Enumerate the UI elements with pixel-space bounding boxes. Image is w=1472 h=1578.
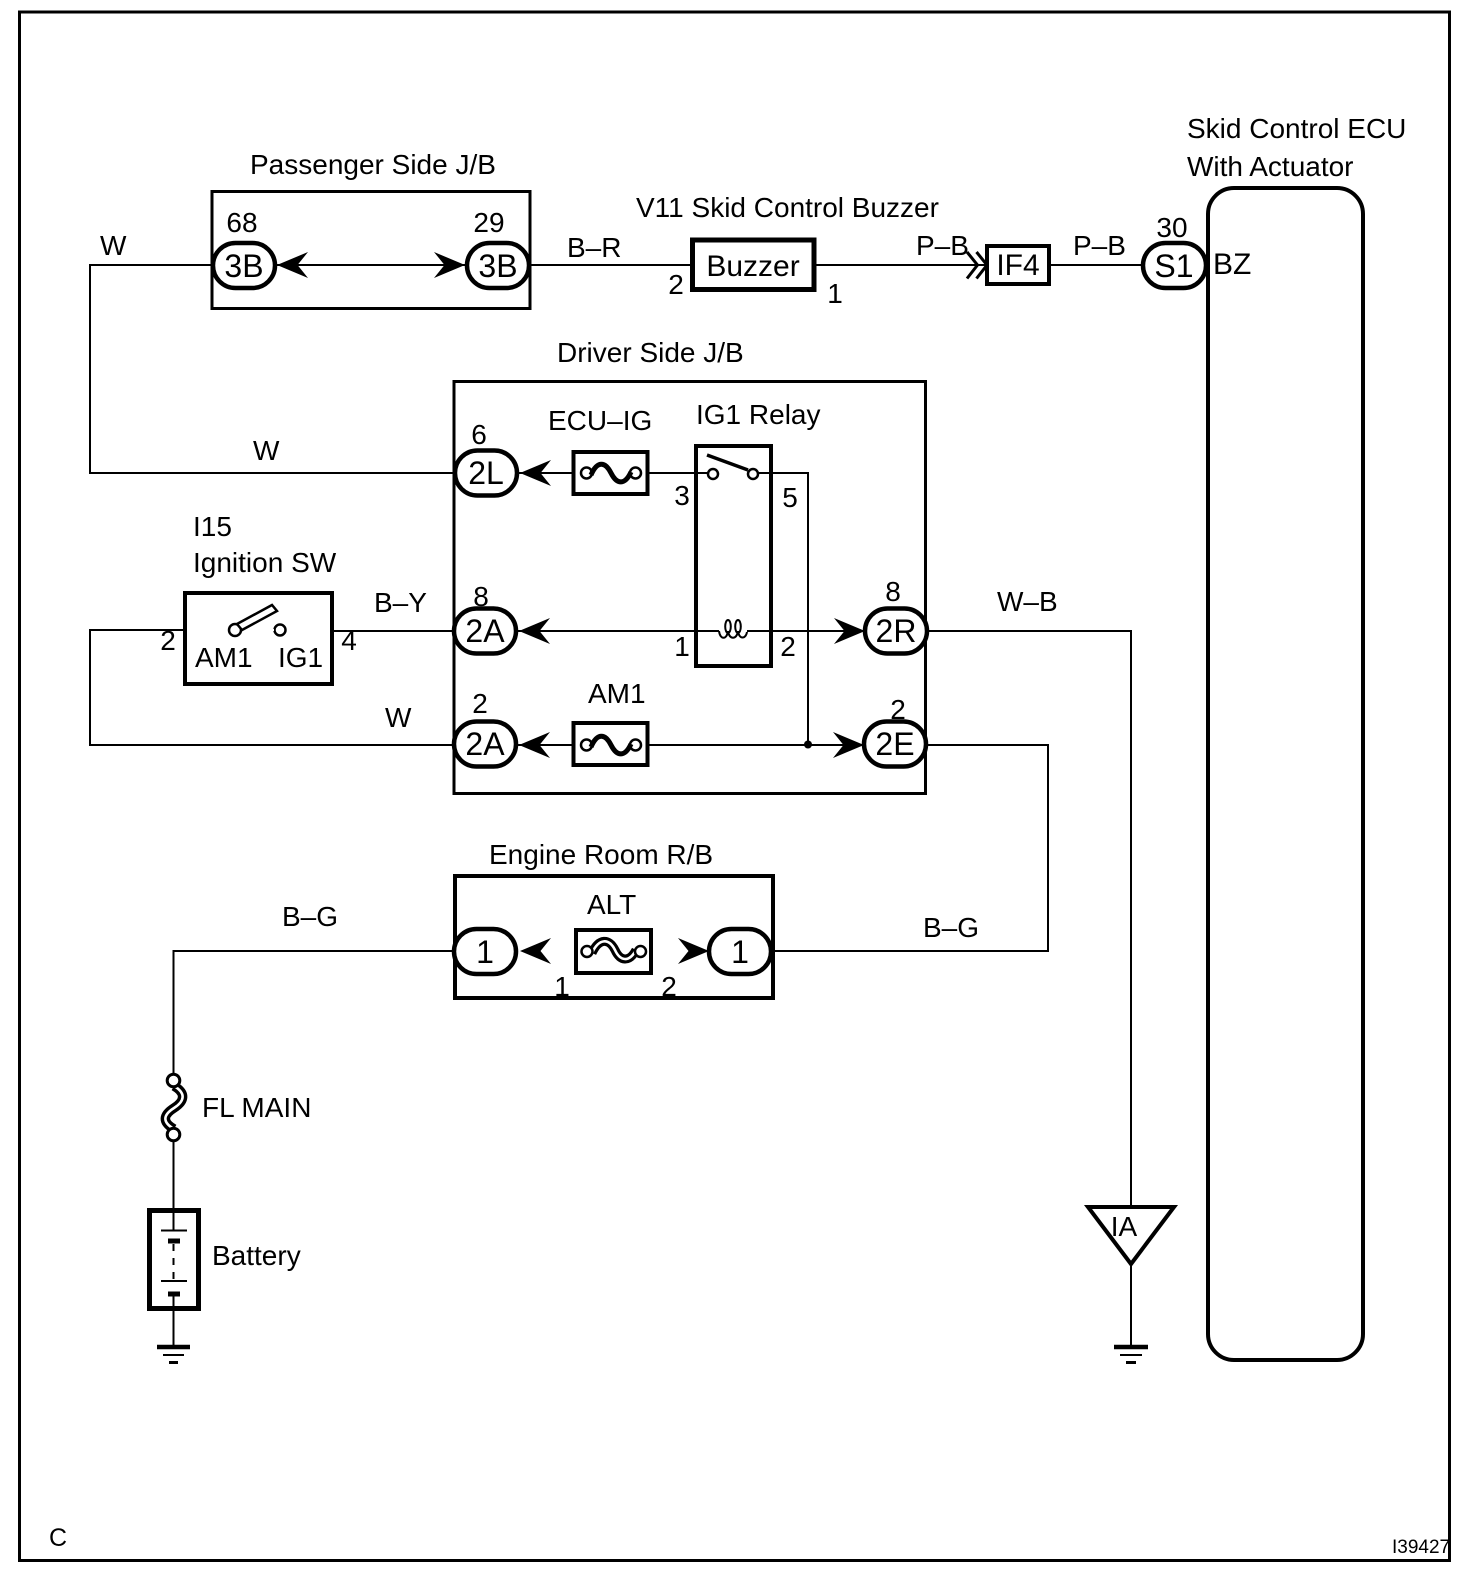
ground below IA: [1114, 1345, 1148, 1350]
ground IA triangle: [1088, 1207, 1174, 1264]
svg-text:B–R: B–R: [567, 232, 621, 263]
connector S1: [1143, 243, 1206, 288]
wire P-B IF4 to S1: [1050, 264, 1144, 266]
svg-text:2R: 2R: [876, 613, 917, 649]
svg-text:8: 8: [885, 576, 901, 607]
svg-text:30: 30: [1156, 212, 1187, 243]
svg-text:4: 4: [341, 625, 357, 656]
svg-text:Battery: Battery: [212, 1240, 301, 1271]
svg-text:Skid Control ECU: Skid Control ECU: [1187, 113, 1406, 144]
arrow into 1 right: [678, 938, 709, 964]
svg-text:IG1: IG1: [278, 642, 323, 673]
svg-text:W: W: [385, 702, 412, 733]
svg-text:FL MAIN: FL MAIN: [202, 1092, 311, 1123]
wire between 3B connectors: [275, 264, 467, 266]
relay switch lever: [707, 455, 748, 470]
svg-text:Driver Side J/B: Driver Side J/B: [557, 337, 744, 368]
svg-text:2: 2: [160, 625, 176, 656]
svg-text:IA: IA: [1111, 1211, 1138, 1242]
svg-text:ECU–IG: ECU–IG: [548, 405, 652, 436]
Engine Room R/B box: [455, 876, 773, 998]
svg-text:Engine Room R/B: Engine Room R/B: [489, 839, 713, 870]
svg-text:B–G: B–G: [923, 912, 979, 943]
svg-text:S1: S1: [1154, 248, 1193, 284]
arrow into 2A row3: [519, 732, 550, 758]
svg-text:Passenger Side J/B: Passenger Side J/B: [250, 149, 496, 180]
wire ECU-IG fuse to relay pin3: [649, 472, 695, 474]
arrow into 3B right: [434, 252, 465, 278]
svg-text:P–B: P–B: [1073, 230, 1126, 261]
wire relay pin2 to 2R: [772, 630, 866, 632]
svg-text:B–Y: B–Y: [374, 587, 427, 618]
svg-text:5: 5: [782, 482, 798, 513]
svg-text:2: 2: [780, 631, 796, 662]
connector 3B left: [213, 243, 275, 288]
svg-text:W–B: W–B: [997, 586, 1058, 617]
connector 3B right: [467, 243, 529, 288]
svg-text:C: C: [49, 1524, 67, 1552]
svg-text:1: 1: [554, 971, 570, 1002]
arrow into 2A row2: [519, 618, 550, 644]
svg-text:IF4: IF4: [996, 249, 1039, 282]
connector 1 left: [454, 929, 516, 974]
svg-text:W: W: [253, 435, 280, 466]
fusible link FL MAIN: [165, 1086, 182, 1129]
svg-text:I15: I15: [193, 511, 232, 542]
wire AM1 fuse to 2E: [649, 744, 865, 746]
svg-text:3B: 3B: [478, 248, 517, 284]
connector 2E: [864, 722, 926, 767]
connector IF4: [987, 246, 1049, 284]
wire W from passenger J/B to driver J/B 2L: [90, 265, 453, 473]
svg-text:3: 3: [674, 480, 690, 511]
wire P-B buzzer to IF4: [816, 264, 986, 266]
svg-text:AM1: AM1: [588, 678, 646, 709]
wire B-G engine room R/B to FL MAIN: [174, 951, 455, 1075]
Driver Side J/B box: [454, 382, 926, 794]
wire battery to ground: [173, 1310, 175, 1346]
arrow into 2R: [834, 618, 865, 644]
svg-text:29: 29: [473, 207, 504, 238]
buzzer box: [693, 240, 815, 290]
wire ignition SW pin2 to 2A row3: [90, 630, 454, 745]
svg-text:2A: 2A: [465, 613, 505, 649]
connector 2A row3: [454, 722, 516, 767]
svg-text:2: 2: [668, 269, 684, 300]
svg-text:68: 68: [226, 207, 257, 238]
svg-text:P–B: P–B: [916, 230, 969, 261]
svg-text:V11 Skid Control Buzzer: V11 Skid Control Buzzer: [636, 192, 939, 223]
wire 2A row3 to AM1 fuse: [516, 744, 572, 746]
Passenger Side J/B box: [212, 192, 530, 309]
wire B-R buzzer to 3B: [529, 264, 691, 266]
svg-text:B–G: B–G: [282, 901, 338, 932]
wire 2L to ECU-IG fuse: [517, 472, 572, 474]
arrow into 1 left: [520, 938, 551, 964]
ignition contacts: [229, 624, 241, 636]
svg-text:ALT: ALT: [587, 889, 636, 920]
connector 2L: [455, 451, 517, 496]
svg-text:IG1 Relay: IG1 Relay: [696, 399, 821, 430]
wire W-B 2R to IA triangle: [927, 631, 1131, 1208]
wire relay pin5 down to row3 junction: [772, 473, 808, 745]
svg-text:Buzzer: Buzzer: [706, 250, 799, 283]
arrow into 2E: [833, 732, 864, 758]
arrow into 3B left: [277, 252, 308, 278]
svg-text:BZ: BZ: [1213, 248, 1251, 281]
svg-text:1: 1: [731, 934, 749, 970]
svg-text:1: 1: [476, 934, 494, 970]
battery: [150, 1211, 199, 1309]
relay coil: [695, 630, 719, 632]
connector 1 right: [709, 929, 771, 974]
svg-text:1: 1: [674, 631, 690, 662]
connector 2A row2: [454, 609, 516, 654]
svg-text:W: W: [100, 230, 127, 261]
connector 2R: [865, 609, 927, 654]
svg-text:2: 2: [661, 971, 677, 1002]
svg-text:3B: 3B: [224, 248, 263, 284]
wire FL MAIN to battery: [173, 1139, 175, 1209]
svg-text:Ignition SW: Ignition SW: [193, 547, 337, 578]
svg-text:2A: 2A: [465, 726, 505, 762]
svg-text:2: 2: [472, 688, 488, 719]
svg-text:1: 1: [827, 278, 843, 309]
svg-text:AM1: AM1: [195, 642, 253, 673]
wire B-G 2E to engine room R/B right connector: [773, 745, 1048, 951]
svg-text:2L: 2L: [468, 455, 504, 491]
arrow into 2L: [520, 460, 551, 486]
wire IA triangle to ground: [1130, 1263, 1132, 1346]
wire 2A row2 to relay pin1: [516, 630, 695, 632]
svg-text:6: 6: [471, 419, 487, 450]
svg-text:With Actuator: With Actuator: [1187, 151, 1354, 182]
junction dot row3: [804, 741, 812, 749]
double chevron before IF4: [967, 252, 978, 279]
relay switch contacts: [695, 472, 708, 474]
ground below battery: [157, 1345, 190, 1350]
svg-text:2E: 2E: [875, 726, 914, 762]
wire B-Y ignition SW pin4 to 2A row2: [333, 630, 455, 632]
svg-text:I39427: I39427: [1392, 1537, 1450, 1558]
ignition lever: [237, 605, 277, 630]
